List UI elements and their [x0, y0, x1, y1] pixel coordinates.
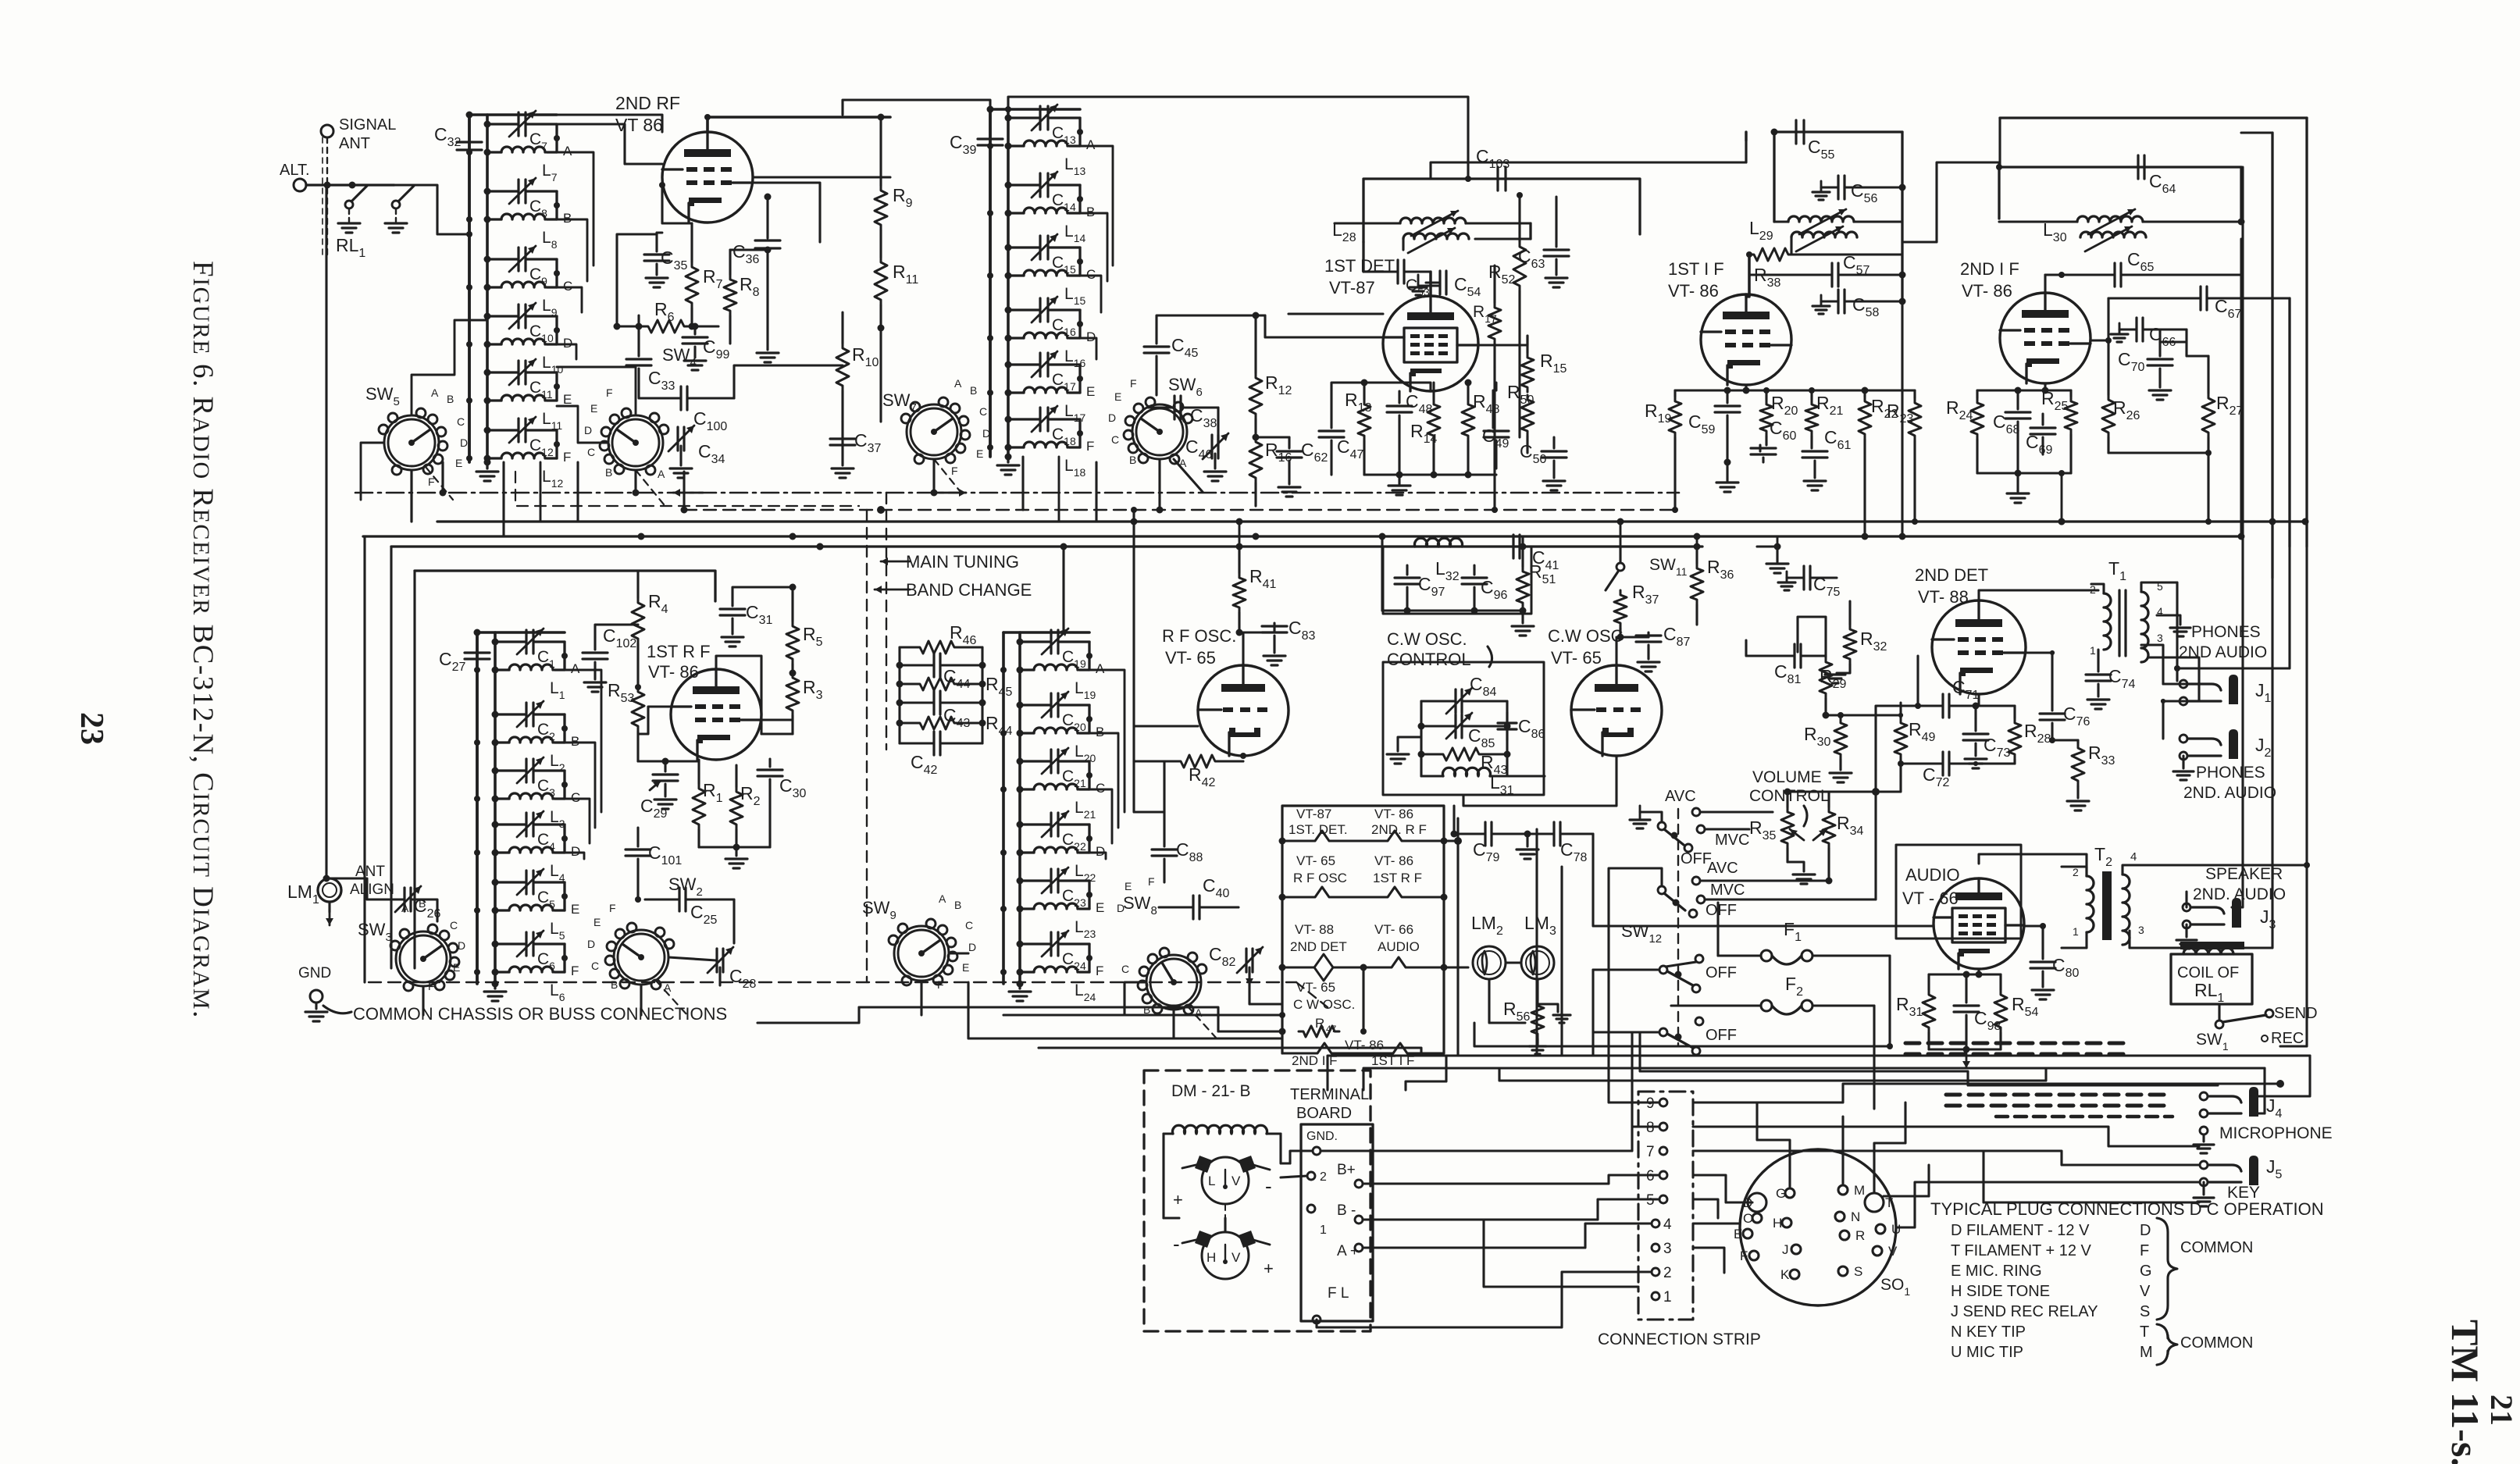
inductor L18: [987, 442, 1085, 479]
inductor L21: [1000, 784, 1096, 821]
label VOLUME CONTROL: [1749, 768, 1830, 826]
svg-text:F: F: [1740, 1248, 1748, 1263]
resistor R25: [2041, 388, 2077, 473]
svg-text:B -: B -: [1337, 1202, 1356, 1219]
capacitor C55: [1746, 120, 1902, 301]
svg-text:E: E: [1086, 384, 1095, 399]
capacitor C69: [2026, 414, 2055, 457]
ground 1ST IF cathode: [1716, 459, 1738, 493]
svg-text:F: F: [1096, 964, 1103, 978]
transformer T1: [2090, 558, 2163, 662]
label AVC lower: [1692, 860, 1812, 885]
label chart VT-87 1ST DET: [1289, 807, 1348, 837]
svg-text:F L: F L: [1328, 1285, 1349, 1302]
wire alt to switch: [306, 182, 394, 189]
resistor R37: [1614, 582, 1659, 637]
inductor L11: [466, 395, 562, 432]
resistor R3: [786, 670, 823, 735]
terminal SIGNAL ANT: [321, 116, 396, 152]
svg-text:A: A: [1086, 137, 1096, 152]
capacitor C61: [1802, 427, 1852, 490]
svg-text:J: J: [1782, 1242, 1789, 1257]
wire fuse nets: [1718, 903, 1890, 1109]
svg-text:D: D: [584, 424, 592, 436]
svg-text:-: -: [1265, 1174, 1272, 1198]
wire strip to SO1: [1693, 1175, 1752, 1218]
switch SW7: [882, 377, 990, 477]
svg-text:C: C: [450, 919, 458, 931]
fuse F2: [1671, 974, 1874, 1014]
ground 1ST DET cathode: [1364, 472, 1496, 496]
capacitor C35: [644, 233, 688, 287]
inductor L1: [474, 664, 565, 701]
ground top right small: [1757, 547, 1788, 573]
inductor L12: [466, 453, 563, 490]
resistor R11: [875, 230, 918, 422]
svg-text:C: C: [457, 415, 465, 428]
wire section B: [1077, 185, 1095, 219]
terminal ALT: [280, 162, 310, 191]
relay RL1 label: [336, 235, 365, 260]
box tuner dashed section top: [515, 472, 859, 510]
ground bank4: [1009, 981, 1031, 1002]
wire section B: [554, 191, 572, 226]
svg-text:D: D: [1096, 844, 1105, 859]
wire tuning bank bus: [469, 115, 557, 462]
svg-text:1ST R F: 1ST R F: [647, 642, 711, 661]
wire table bottom feeds: [1328, 1056, 1446, 1090]
coil of relay RL1: [2171, 942, 2252, 1005]
inductor L7: [466, 147, 558, 183]
wire section F: [561, 944, 579, 978]
potentiometer R34: [1813, 792, 1864, 885]
resistor R14: [1410, 383, 1440, 475]
wire tuning bank bus: [477, 632, 565, 984]
lamp LM3: [1521, 913, 1556, 979]
resistor R54: [1994, 974, 2039, 1049]
wire bank1 letters to SW4 bundle: [557, 152, 593, 359]
capacitor C7 trimmer: [484, 111, 558, 152]
resistor R44: [900, 713, 1013, 738]
svg-text:F: F: [951, 465, 958, 477]
wire top right bus: [2000, 118, 2307, 578]
transformer L30: [1999, 209, 2245, 251]
terminal A+: [1337, 1243, 1449, 1259]
lamp LM2: [1471, 913, 1506, 979]
diamond feedthrough in chart: [1314, 954, 1333, 981]
svg-text:AUDIO: AUDIO: [1378, 939, 1420, 954]
svg-text:M: M: [2140, 1344, 2153, 1361]
box DM-21-B dashed: [1144, 1070, 1370, 1331]
svg-text:B+: B+: [1337, 1162, 1356, 1178]
resistor R52: [1488, 195, 1526, 437]
capacitor C74: [2086, 662, 2136, 709]
svg-text:COMMON: COMMON: [2180, 1334, 2253, 1352]
wire RF OSC plate: [1236, 629, 1243, 665]
svg-text:U: U: [1891, 1222, 1901, 1237]
inductor L5: [474, 905, 565, 942]
resistor R30: [1804, 712, 1852, 782]
capacitor C42: [900, 732, 982, 777]
inductor L15: [987, 270, 1085, 307]
wire ladder verticals: [896, 647, 986, 743]
resistor R42: [1134, 753, 1246, 789]
svg-text:D: D: [982, 427, 990, 440]
capacitor C85 trimmer: [1421, 713, 1507, 750]
svg-text:F: F: [606, 386, 613, 399]
capacitor C41: [1488, 535, 1559, 572]
svg-text:3: 3: [2138, 924, 2144, 936]
capacitor C75: [1778, 566, 1841, 599]
capacitor C46 trimmer: [1185, 433, 1228, 481]
capacitor C78: [1517, 822, 1593, 864]
capacitor C36: [732, 194, 780, 329]
wire jacks J1 J2: [2141, 645, 2194, 780]
capacitor C50: [1520, 437, 1567, 490]
junction dots buses: [440, 490, 2309, 550]
svg-text:A: A: [431, 386, 439, 399]
svg-text:N KEY TIP: N KEY TIP: [1951, 1323, 2026, 1341]
socket SO1: [1734, 1149, 1910, 1305]
wire section C: [561, 771, 580, 805]
terminals connection strip 1-9: [1646, 1095, 1672, 1305]
wire bottom bundle extra 4: [1452, 1127, 2108, 1287]
wire bottom long bus 4: [1693, 1127, 2199, 1165]
svg-text:C: C: [1086, 267, 1096, 282]
capacitor C45: [1144, 315, 1265, 395]
relay contact RL1 b: [392, 186, 414, 222]
svg-text:G: G: [1776, 1186, 1786, 1201]
capacitor C99: [683, 323, 730, 371]
svg-text:F: F: [609, 902, 616, 914]
capacitor C24 trimmer: [1017, 931, 1090, 972]
svg-text:E: E: [563, 392, 572, 407]
switch SW2: [587, 874, 703, 994]
wire CW OSC plate: [1616, 634, 1624, 666]
svg-text:SIGNAL: SIGNAL: [339, 116, 396, 134]
resistor R47 in chart: [1299, 1016, 1367, 1037]
transformer L28: [1332, 211, 1531, 253]
wire RF OSC grid: [1134, 726, 1198, 761]
wire section D: [1077, 310, 1096, 344]
svg-text:B: B: [1096, 725, 1104, 739]
svg-text:K: K: [1780, 1267, 1790, 1282]
label chart VT-86 bottom: [1345, 1038, 1384, 1053]
svg-text:E: E: [976, 447, 983, 460]
switch SW4: [584, 345, 697, 480]
svg-text:COIL OF: COIL OF: [2177, 964, 2239, 981]
svg-text:COMMON: COMMON: [2180, 1239, 2253, 1256]
capacitor C38: [1148, 396, 1218, 445]
svg-text:D: D: [968, 941, 976, 953]
svg-text:SPEAKER: SPEAKER: [2205, 865, 2283, 883]
wire SO1 top feeds: [1757, 1102, 1905, 1193]
tube 2ND DET VT-88: [1915, 565, 2026, 694]
svg-text:VT- 86: VT- 86: [1374, 807, 1413, 821]
wire plate network: [617, 182, 843, 398]
capacitor C97: [1395, 565, 1445, 611]
capacitor C60: [1751, 418, 1797, 462]
svg-text:AVC: AVC: [1665, 788, 1696, 805]
capacitor C2 trimmer: [492, 701, 565, 743]
wire L32 nets: [1382, 547, 1527, 614]
capacitor C65: [2045, 239, 2241, 293]
svg-text:BOARD: BOARD: [1296, 1105, 1352, 1122]
wire SW5 to bank1: [361, 320, 487, 506]
svg-text:J SEND REC RELAY: J SEND REC RELAY: [1951, 1303, 2098, 1320]
resistor R16: [1249, 434, 1292, 507]
svg-text:VT- 86: VT- 86: [1374, 853, 1413, 868]
capacitor C49: [1482, 390, 1510, 468]
wire bottom long bus 2: [1446, 1068, 2265, 1113]
wire band change dashed bus: [684, 506, 1679, 514]
svg-text:COMMON CHASSIS OR BUSS CON: COMMON CHASSIS OR BUSS CONNECTIONS: [353, 1004, 727, 1024]
inductor L8: [466, 214, 558, 251]
resistor R17: [1473, 265, 1501, 367]
capacitor C25: [645, 888, 734, 943]
wire lamps: [1489, 963, 1538, 1023]
wire sw9 sw8 link: [949, 953, 1146, 1015]
svg-text:H SIDE TONE: H SIDE TONE: [1951, 1283, 2050, 1300]
svg-text:+: +: [1264, 1259, 1274, 1278]
wire det plate bus: [1746, 640, 1903, 792]
capacitor C21 trimmer: [1017, 748, 1090, 789]
svg-text:E MIC. RING: E MIC. RING: [1951, 1263, 2042, 1280]
wire strip feeds from left: [1317, 1127, 1659, 1327]
capacitor C11 trimmer: [484, 359, 558, 401]
svg-text:C.W OSC.: C.W OSC.: [1387, 629, 1467, 649]
label COMMON CHASSIS OR BUSS CONNECTIONS: [353, 1004, 727, 1024]
switch SW8: [1117, 875, 1207, 1019]
svg-text:VT- 86: VT- 86: [1962, 281, 2012, 301]
box L32 oscillator coil assembly: [1383, 547, 1531, 614]
svg-text:2ND RF: 2ND RF: [615, 93, 680, 113]
fuse F1: [1718, 919, 1890, 964]
switch SW6: [1108, 375, 1203, 469]
wire section D: [1086, 825, 1105, 859]
capacitor C57: [1749, 252, 1906, 297]
svg-text:B: B: [1129, 454, 1136, 466]
ground bank3: [484, 981, 506, 1002]
svg-text:SEND: SEND: [2274, 1005, 2318, 1022]
capacitor C31: [720, 584, 797, 647]
capacitor C102: [583, 625, 638, 692]
box CW OSC CONTROL: [1383, 629, 1544, 795]
wire chart to right: [1363, 818, 1468, 1056]
svg-text:VT- 88: VT- 88: [1918, 587, 1969, 607]
resistor R43: [1421, 748, 1508, 777]
capacitor C62: [1256, 437, 1328, 497]
svg-text:GND.: GND.: [1306, 1130, 1338, 1143]
wire lower mid horizontals: [757, 1007, 1421, 1056]
svg-text:C: C: [591, 960, 599, 972]
jack J3: [2176, 898, 2276, 949]
capacitor C3 trimmer: [492, 757, 565, 799]
wire 1ST IF top: [1746, 132, 1749, 297]
capacitor C40: [1159, 875, 1239, 919]
svg-text:-: -: [1173, 1232, 1180, 1256]
svg-text:CONTROL: CONTROL: [1387, 650, 1471, 669]
inductor L14: [987, 208, 1085, 244]
svg-text:D: D: [458, 939, 465, 952]
wire main tuning vertical dashed: [886, 493, 887, 750]
wire SW2 ganged dashes: [656, 459, 1217, 1038]
box connection strip: [1598, 1092, 1761, 1348]
wire right column 1: [2177, 275, 2290, 681]
resistor R28: [1976, 706, 2051, 764]
label OFF lower: [1689, 902, 1737, 919]
label PHONES 2ND AUDIO upper: [2179, 623, 2267, 661]
svg-text:A: A: [658, 468, 665, 480]
ground RL1 contact a: [338, 223, 360, 233]
inductor L4: [474, 847, 565, 884]
label chart 2ND IF 1ST IF below: [1292, 1053, 1414, 1068]
resistor R45: [900, 674, 1013, 699]
meter LV: [1173, 1156, 1272, 1209]
svg-text:E: E: [590, 402, 597, 415]
wire bottom bundle extra 3: [1640, 1032, 2218, 1085]
inductor L3: [474, 793, 565, 830]
capacitor C14 trimmer: [1005, 172, 1081, 213]
svg-text:DM - 21- B: DM - 21- B: [1171, 1082, 1251, 1100]
inductor L19: [1000, 664, 1096, 701]
resistor R53: [608, 680, 644, 761]
svg-text:A: A: [1096, 661, 1105, 676]
svg-text:C: C: [587, 446, 595, 458]
box tuner dashed section bottom: [1003, 1012, 1285, 1018]
wire volume to audio: [1798, 617, 1918, 770]
svg-text:D FILAMENT - 12 V: D FILAMENT - 12 V: [1951, 1222, 2090, 1239]
resistor R5: [786, 587, 823, 673]
svg-text:VT- 65: VT- 65: [1165, 648, 1216, 668]
svg-text:1ST R F: 1ST R F: [1373, 871, 1422, 885]
wire sw8 to band change dash: [1062, 1010, 1174, 1038]
label chart VT-65 RF OSC: [1293, 853, 1347, 885]
svg-text:AUDIO: AUDIO: [1905, 865, 1960, 885]
wire section B: [1086, 705, 1104, 739]
wire section F: [1077, 419, 1094, 454]
svg-text:2ND DET: 2ND DET: [1915, 565, 1988, 585]
relay contact RL1 a: [345, 186, 367, 222]
svg-text:R F OSC.: R F OSC.: [1162, 626, 1236, 646]
wire T1 secondary: [2141, 582, 2199, 701]
capacitor C15 trimmer: [1005, 234, 1081, 276]
svg-text:BAND CHANGE: BAND CHANGE: [906, 580, 1032, 600]
wire 2ND DET nets: [1918, 590, 2098, 706]
svg-text:E: E: [1114, 390, 1121, 403]
capacitor C19 trimmer: [1017, 629, 1090, 670]
svg-text:OFF: OFF: [1706, 902, 1737, 919]
capacitor C44: [900, 654, 982, 691]
svg-text:V: V: [1231, 1250, 1241, 1265]
wire band change vertical dashed: [866, 510, 868, 982]
label chart VT-65 CW OSC: [1293, 980, 1355, 1012]
wire common chassis dashed: [369, 982, 1328, 1007]
svg-text:2ND. AUDIO: 2ND. AUDIO: [2183, 784, 2276, 802]
wire bottom bundle extra 2: [1499, 1068, 2265, 1081]
svg-text:2ND. R F: 2ND. R F: [1371, 822, 1427, 837]
terminal FL: [1313, 1285, 1349, 1323]
capacitor C58: [1812, 290, 1906, 319]
capacitor C29: [638, 758, 678, 821]
svg-text:D: D: [2140, 1222, 2151, 1239]
page number 21: [2484, 1395, 2519, 1426]
wire section B: [561, 714, 579, 749]
capacitor C88: [1134, 761, 1203, 882]
resistor R29: [1820, 640, 1847, 719]
capacitor C98: [1954, 974, 2001, 1068]
wire F1 F2 to right: [1874, 914, 2265, 1046]
wire bank3 letters bundle: [565, 670, 601, 859]
terminal B-: [1307, 1202, 1468, 1237]
svg-text:C: C: [1111, 433, 1119, 446]
svg-text:MVC: MVC: [1710, 882, 1745, 899]
svg-text:G: G: [2140, 1263, 2152, 1280]
ground 2ND IF cathode: [1977, 470, 2071, 504]
shield hatch row B: [1946, 1095, 2172, 1117]
svg-text:VT- 65: VT- 65: [1296, 853, 1335, 868]
svg-text:A: A: [939, 892, 946, 905]
svg-text:1ST. DET.: 1ST. DET.: [1289, 822, 1348, 837]
resistor R12: [1249, 312, 1292, 438]
wire CW OSC control nets: [1387, 701, 1616, 806]
wire speaker feed: [2141, 865, 2187, 907]
shield hatch row A: [1905, 1043, 2127, 1054]
capacitor C5 trimmer: [492, 869, 565, 910]
wire bus 687: [363, 533, 2241, 540]
label KEY: [2227, 1184, 2260, 1202]
svg-text:1ST I F: 1ST I F: [1668, 259, 1724, 279]
capacitor C53: [1363, 260, 1431, 298]
svg-text:MAIN TUNING: MAIN TUNING: [906, 552, 1019, 572]
svg-text:B: B: [970, 384, 977, 397]
wire VT-87 plate to 1ST IF: [1431, 132, 1746, 179]
capacitor C100: [639, 386, 734, 433]
switch SW5: [365, 384, 468, 488]
wire 2ND IF nets: [1977, 340, 2212, 456]
svg-text:VT- 66: VT- 66: [1374, 922, 1413, 937]
svg-text:C: C: [965, 919, 973, 931]
svg-text:23: 23: [73, 712, 109, 745]
inductor dynamotor filter: [1164, 1125, 1281, 1134]
svg-text:F: F: [1148, 875, 1155, 888]
capacitor C1 trimmer: [492, 629, 565, 670]
resistor R38: [1746, 248, 1902, 290]
capacitor C73: [1963, 703, 2011, 769]
svg-text:B: B: [571, 734, 579, 749]
svg-text:VT- 65: VT- 65: [1296, 980, 1335, 995]
capacitor C6 trimmer: [492, 931, 565, 972]
resistor R8: [724, 250, 760, 344]
capacitor C68: [1993, 390, 2030, 473]
capacitor C17 trimmer: [1005, 351, 1081, 393]
jack J1: [2180, 675, 2272, 705]
svg-text:AVC: AVC: [1707, 860, 1738, 877]
capacitor C76: [2040, 696, 2090, 743]
capacitor C23 trimmer: [1017, 867, 1090, 909]
wire 1ST RF plate: [716, 656, 793, 734]
svg-text:E: E: [1125, 880, 1132, 892]
svg-text:1: 1: [2073, 925, 2079, 938]
resistor R15: [1521, 336, 1567, 392]
inductor L32: [1414, 538, 1462, 583]
svg-text:B: B: [447, 393, 454, 405]
resistor R51: [1512, 547, 1556, 636]
svg-text:V: V: [1888, 1244, 1898, 1259]
capacitor C16 trimmer: [1005, 297, 1081, 338]
svg-text:2ND AUDIO: 2ND AUDIO: [2179, 643, 2267, 661]
capacitor C71: [1915, 677, 1980, 718]
